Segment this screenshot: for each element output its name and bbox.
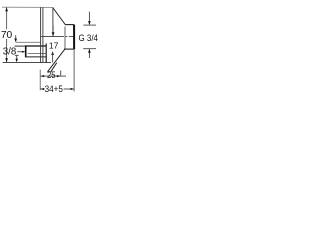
node G34 arrow down [88, 12, 90, 25]
wire wall line 1 [40, 7, 42, 62]
wire top extension line [2, 6, 53, 8]
wire cylinder bottom edge [64, 48, 74, 50]
node 70 arrow up [5, 7, 8, 11]
node 34+5 dim left [41, 88, 45, 90]
node 25 dimension [41, 75, 61, 77]
wire wall line 2 [42, 7, 44, 62]
node 70 arrow down [5, 58, 8, 62]
wire axis centerline [41, 36, 64, 38]
node small arrow down left2 [16, 56, 18, 60]
svg-text:70: 70 [1, 30, 13, 41]
wire back face line [45, 44, 47, 63]
wire cylinder top edge [65, 24, 74, 26]
svg-text:17: 17 [49, 41, 59, 51]
node 17 arrow up [51, 51, 54, 55]
svg-text:G 3/4: G 3/4 [79, 33, 99, 44]
wire cone bottom slope inner [51, 63, 57, 72]
node 70 dimension line upper [6, 7, 8, 29]
wire baseline [3, 62, 52, 64]
wire ext 34+5 right [73, 49, 75, 91]
wire cone rim cap [48, 71, 51, 73]
node 34+5 dim right [64, 88, 74, 90]
wire pipe top edge [15, 45, 26, 47]
svg-text:3/8: 3/8 [3, 47, 16, 58]
svg-text:34+5: 34+5 [45, 84, 63, 95]
wire ext line y42 [16, 41, 41, 43]
node 70 dimension line lower [6, 39, 8, 62]
wire cone top slope [53, 8, 65, 25]
wire junction line [64, 27, 66, 50]
node 17 arrow down [52, 25, 54, 35]
wire ext G34 top [83, 24, 96, 26]
wire ext 25 right [60, 71, 62, 77]
wire pipe inner line [28, 53, 47, 55]
wire ext bottom left [39, 70, 41, 91]
wire rosette front edge [52, 7, 54, 36]
wire cone bottom slope main [48, 49, 65, 72]
node small arrow down left [15, 35, 17, 41]
node G34 arrow up [88, 50, 90, 58]
wire pipe bottom edge [25, 56, 46, 58]
capacitor cylinder end face [73, 25, 75, 50]
wire ext line y55.8 [15, 54, 19, 56]
wire ext G34 bottom [83, 48, 96, 50]
svg-text:25: 25 [47, 70, 56, 80]
wire leader 3/8 [17, 51, 24, 53]
capacitor pipe end cap [25, 46, 27, 58]
